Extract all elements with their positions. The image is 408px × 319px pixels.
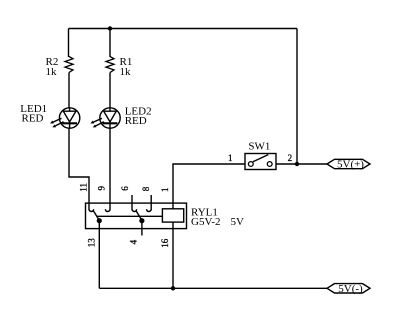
relay contact pole 1 throw hook pin 11: [89, 209, 94, 211]
wire stub relay pin 6: [131, 195, 133, 210]
svg-text:1k: 1k: [46, 66, 58, 78]
resistor R2: [65, 57, 73, 73]
svg-text:8: 8: [141, 186, 151, 191]
svg-text:1k: 1k: [120, 66, 132, 78]
relay mechanical link line to coil: [97, 215, 162, 217]
svg-text:16: 16: [160, 238, 170, 248]
switch SW1: [245, 154, 276, 170]
node junction of pin 16 on bottom rail: [171, 286, 175, 290]
wire relay pin 16 to bottom rail: [172, 222, 174, 288]
wire LED2 to relay pin 9: [109, 128, 111, 210]
svg-text:1: 1: [228, 153, 233, 163]
relay contact pole 2 throw hook pin 8: [147, 209, 152, 211]
wire LED1 to relay pin 11: [69, 128, 89, 210]
svg-text:5V(+): 5V(+): [337, 159, 364, 171]
svg-text:5V(-): 5V(-): [338, 283, 363, 295]
wire SW1 to 5V(+) connector: [276, 163, 327, 165]
relay contact pole 2 common dot (pin 4): [139, 218, 144, 223]
node junction of right drop on switch row: [295, 162, 299, 166]
relay coil: [162, 209, 183, 222]
wire stub relay pin 4: [141, 221, 143, 236]
wire bottom supply rail: [99, 287, 327, 289]
resistor R1: [106, 57, 114, 73]
svg-text:6: 6: [120, 186, 130, 191]
svg-text:13: 13: [87, 238, 97, 248]
svg-text:G5V-2: G5V-2: [191, 216, 221, 228]
wire R2 to LED1: [68, 73, 70, 109]
node junction of R1 branch on top rail: [108, 26, 112, 30]
svg-text:SW1: SW1: [248, 141, 270, 153]
wire top rail to R1: [109, 29, 111, 58]
relay contact pole 1 common dot (pin 13): [97, 218, 102, 223]
relay contact pole 2 throw hook pin 6: [132, 209, 137, 211]
svg-text:11: 11: [79, 183, 89, 192]
svg-text:2: 2: [288, 153, 293, 163]
wire top supply rail: [69, 28, 298, 30]
svg-text:RED: RED: [22, 113, 44, 125]
relay contact pole 1 lever: [93, 211, 99, 221]
relay RYL1 body outline: [86, 203, 187, 229]
svg-text:1: 1: [160, 187, 170, 192]
power connector 5V(+): [327, 159, 370, 171]
wire top rail right drop to switch row: [296, 29, 298, 165]
wire relay pin 1 to SW1: [173, 164, 245, 209]
relay contact pole 2 lever: [136, 211, 142, 221]
wire stub relay pin 8: [150, 195, 152, 210]
LED LED2: [90, 108, 120, 128]
wire top rail to R2: [68, 29, 70, 58]
wire relay pin 13 to bottom rail: [98, 221, 100, 289]
LED LED1: [50, 108, 80, 128]
relay contact pole 1 throw hook pin 9: [105, 209, 110, 211]
svg-text:5V: 5V: [231, 216, 245, 228]
svg-text:4: 4: [128, 239, 138, 244]
wire R1 to LED2: [109, 73, 111, 109]
svg-text:RED: RED: [125, 115, 147, 127]
power connector 5V(-): [327, 283, 370, 295]
svg-text:9: 9: [97, 185, 107, 190]
